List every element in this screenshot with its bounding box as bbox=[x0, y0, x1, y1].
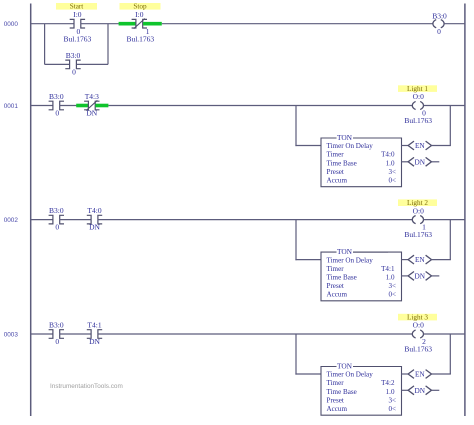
svg-text:B3:0: B3:0 bbox=[49, 321, 64, 330]
svg-text:T4:0: T4:0 bbox=[87, 206, 101, 215]
svg-text:Timer On Delay: Timer On Delay bbox=[327, 256, 374, 264]
svg-text:0000: 0000 bbox=[4, 21, 19, 28]
output flag DN bbox=[408, 157, 414, 166]
svg-text:0: 0 bbox=[55, 109, 59, 118]
svg-text:I:0: I:0 bbox=[135, 10, 144, 19]
svg-text:EN: EN bbox=[415, 142, 425, 150]
svg-text:DN: DN bbox=[415, 158, 426, 166]
svg-text:Timer: Timer bbox=[327, 379, 345, 387]
label Start highlight bbox=[56, 3, 97, 10]
wire branch-up right rung0 bbox=[107, 24, 109, 65]
wire coil to right rail bbox=[444, 23, 465, 25]
svg-text:Timer On Delay: Timer On Delay bbox=[327, 371, 374, 379]
wire T4:3 to coil Light1 bbox=[108, 105, 412, 107]
svg-text:B3:0: B3:0 bbox=[432, 11, 447, 20]
svg-text:Time Base: Time Base bbox=[327, 273, 357, 281]
timer block T4:2 TON box bbox=[321, 367, 402, 416]
wire block to EN bbox=[402, 373, 409, 375]
label Light 1 highlight bbox=[398, 85, 437, 92]
wire rung 0003 left bbox=[31, 333, 53, 335]
wire block to DN bbox=[402, 161, 409, 163]
svg-text:Accum: Accum bbox=[327, 177, 348, 185]
wire DN stub bbox=[432, 275, 440, 277]
energized wire green after T4:3 bbox=[95, 104, 108, 108]
svg-text:1.0: 1.0 bbox=[386, 388, 395, 396]
svg-text:0003: 0003 bbox=[4, 331, 19, 338]
svg-text:Preset: Preset bbox=[327, 396, 344, 404]
wire rung 0002 left bbox=[31, 219, 53, 221]
svg-text:Bul.1763: Bul.1763 bbox=[404, 230, 432, 239]
right power rail bbox=[464, 4, 466, 417]
svg-text:B3:0: B3:0 bbox=[66, 51, 81, 60]
output flag EN bbox=[408, 141, 414, 150]
svg-text:Preset: Preset bbox=[327, 282, 344, 290]
svg-text:EN: EN bbox=[415, 256, 425, 264]
wire between contacts rung2 bbox=[60, 219, 92, 221]
label Stop highlight bbox=[120, 3, 161, 10]
contact B3:0 rung3 (XIC) bbox=[49, 330, 53, 339]
svg-text:Accum: Accum bbox=[327, 405, 348, 413]
svg-text:3<: 3< bbox=[388, 282, 396, 290]
svg-text:Timer: Timer bbox=[327, 265, 345, 273]
energized wire green before Stop bbox=[119, 22, 136, 26]
wire branch-up merge to rung bbox=[449, 334, 451, 374]
contact B3:0 rung2 (XIC) bbox=[49, 215, 53, 224]
wire block to DN bbox=[402, 389, 409, 391]
svg-text:Bul.1763: Bul.1763 bbox=[64, 35, 92, 44]
wire timer input bbox=[295, 145, 321, 147]
svg-text:0<: 0< bbox=[388, 291, 396, 299]
svg-text:1.0: 1.0 bbox=[386, 273, 395, 281]
wire T4:0 to coil Light2 bbox=[98, 219, 413, 221]
svg-text:I:0: I:0 bbox=[73, 10, 82, 19]
contact T4:1 DN (XIC) bbox=[87, 330, 91, 339]
wire timer input bbox=[295, 259, 321, 261]
contact T4:3 DN (XIO) bbox=[84, 101, 88, 110]
wire rung 0000 left bbox=[31, 23, 74, 25]
svg-text:Preset: Preset bbox=[327, 168, 344, 176]
wire rung 0001 left bbox=[31, 105, 53, 107]
svg-text:O:0: O:0 bbox=[413, 321, 425, 330]
svg-text:DN: DN bbox=[89, 337, 100, 346]
svg-text:B3:0: B3:0 bbox=[49, 92, 64, 101]
wire branch-up merge to rung bbox=[449, 106, 451, 146]
output flag DN bbox=[408, 386, 414, 395]
wire block to DN bbox=[402, 275, 409, 277]
svg-text:0: 0 bbox=[72, 68, 76, 77]
wire Start to Stop bbox=[81, 23, 119, 25]
wire EN to merge bbox=[432, 145, 451, 147]
svg-text:DN: DN bbox=[415, 387, 426, 395]
svg-text:Bul.1763: Bul.1763 bbox=[126, 35, 154, 44]
wire EN to merge bbox=[432, 259, 451, 261]
svg-text:Timer On Delay: Timer On Delay bbox=[327, 142, 374, 150]
svg-text:T4:3: T4:3 bbox=[85, 92, 99, 101]
label Light 2 highlight bbox=[398, 199, 437, 206]
svg-text:O:0: O:0 bbox=[413, 206, 425, 215]
svg-text:Bul.1763: Bul.1763 bbox=[404, 116, 432, 125]
svg-text:T4:0: T4:0 bbox=[381, 151, 395, 159]
svg-text:0: 0 bbox=[437, 27, 441, 36]
contact B3:0 seal-in (XIC) on branch bbox=[65, 60, 69, 69]
svg-text:T4:1: T4:1 bbox=[87, 321, 101, 330]
svg-text:T4:1: T4:1 bbox=[381, 265, 395, 273]
energized wire green before T4:3 bbox=[76, 104, 88, 108]
svg-text:3<: 3< bbox=[388, 168, 396, 176]
contact I:0 Stop (XIO) bbox=[132, 19, 136, 28]
svg-text:3<: 3< bbox=[388, 396, 396, 404]
wire T4:1 to coil Light3 bbox=[98, 333, 413, 335]
coil B3:0 (OTE) bbox=[433, 20, 436, 28]
svg-text:Accum: Accum bbox=[327, 291, 348, 299]
svg-text:B3:0: B3:0 bbox=[49, 206, 64, 215]
svg-text:Bul.1763: Bul.1763 bbox=[404, 345, 432, 354]
left power rail bbox=[30, 4, 32, 417]
wire branch bottom rung0 left bbox=[45, 63, 70, 65]
svg-text:Time Base: Time Base bbox=[327, 388, 357, 396]
coil O:0 Light 2 (OTE) bbox=[412, 216, 415, 224]
svg-text:EN: EN bbox=[415, 371, 425, 379]
wire branch bottom rung0 right bbox=[76, 63, 108, 65]
wire between contacts rung3 bbox=[60, 333, 92, 335]
wire branch-down to timer bbox=[295, 334, 297, 375]
output flag DN bbox=[408, 272, 414, 281]
wire between contacts rung1 bbox=[60, 105, 77, 107]
timer block T4:0 TON box bbox=[321, 138, 402, 187]
svg-text:DN: DN bbox=[415, 273, 426, 281]
svg-text:Time Base: Time Base bbox=[327, 159, 357, 167]
wire timer input bbox=[295, 373, 321, 375]
wire block to EN bbox=[402, 259, 409, 261]
svg-text:DN: DN bbox=[86, 109, 97, 118]
svg-text:TON: TON bbox=[337, 133, 353, 142]
wire EN to merge bbox=[432, 373, 451, 375]
svg-text:0<: 0< bbox=[388, 405, 396, 413]
wire DN stub bbox=[432, 161, 440, 163]
svg-text:0001: 0001 bbox=[4, 103, 19, 110]
wire Light1 coil to right rail bbox=[424, 105, 465, 107]
wire branch-down left rung0 bbox=[44, 24, 46, 65]
svg-text:0: 0 bbox=[55, 223, 59, 232]
svg-text:0002: 0002 bbox=[4, 217, 19, 224]
svg-text:1.0: 1.0 bbox=[386, 159, 395, 167]
coil O:0 Light 1 (OTE) bbox=[412, 101, 415, 109]
coil O:0 Light 3 (OTE) bbox=[412, 330, 415, 338]
svg-text:0: 0 bbox=[55, 337, 59, 346]
svg-text:O:0: O:0 bbox=[413, 92, 425, 101]
wire DN stub bbox=[432, 389, 440, 391]
wire branch-up merge to rung bbox=[449, 220, 451, 260]
output flag EN bbox=[408, 255, 414, 264]
svg-text:0<: 0< bbox=[388, 177, 396, 185]
svg-text:TON: TON bbox=[337, 247, 353, 256]
wire branch-down to timer bbox=[295, 220, 297, 261]
wire block to EN bbox=[402, 145, 409, 147]
wire Light3 coil to right rail bbox=[424, 333, 465, 335]
contact B3:0 rung1 (XIC) bbox=[49, 101, 53, 110]
wire Light2 coil to right rail bbox=[424, 219, 465, 221]
label Light 3 highlight bbox=[398, 314, 437, 321]
wire Stop to coil B3:0 bbox=[162, 23, 433, 25]
contact T4:0 DN (XIC) bbox=[87, 215, 91, 224]
contact I:0 Start (XIC) bbox=[70, 19, 74, 28]
svg-text:InstrumentationTools.com: InstrumentationTools.com bbox=[50, 383, 123, 390]
wire branch-down to timer bbox=[295, 106, 297, 147]
svg-text:DN: DN bbox=[89, 223, 100, 232]
energized wire green after Stop bbox=[143, 22, 162, 26]
svg-text:TON: TON bbox=[337, 361, 353, 370]
svg-text:Timer: Timer bbox=[327, 151, 345, 159]
output flag EN bbox=[408, 370, 414, 379]
timer block T4:1 TON box bbox=[321, 252, 402, 301]
svg-text:T4:2: T4:2 bbox=[381, 379, 395, 387]
